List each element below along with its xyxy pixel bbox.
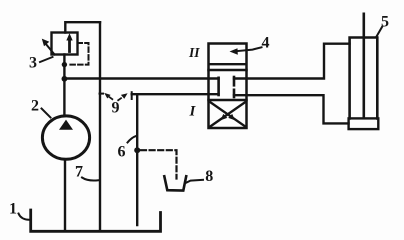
wire relief top loop	[65, 22, 100, 32]
relief valve 3 box	[52, 33, 78, 55]
wire drain line 7	[99, 22, 101, 231]
tank	[31, 210, 161, 231]
cylinder 5 barrel	[350, 38, 378, 119]
valve I cell cross arrows	[211, 102, 246, 126]
label 3	[29, 55, 37, 72]
label 6 leader	[128, 136, 137, 143]
label 8	[205, 168, 213, 185]
svg-text:6: 6	[118, 144, 126, 161]
valve 4 outer box	[209, 44, 247, 129]
flow arrow 9 left	[110, 97, 113, 99]
label 7 leader	[82, 178, 99, 181]
valve middle cell left loop bar	[217, 78, 220, 95]
wire rail B	[132, 93, 219, 95]
wire rail A right to cylinder	[234, 44, 350, 79]
valve middle cell right bar upper	[233, 77, 236, 85]
wire drain dashed to funnel	[141, 150, 177, 178]
cylinder piston	[349, 118, 379, 129]
wire pump suction	[64, 159, 66, 231]
wire rail B right to cylinder	[234, 95, 349, 123]
label 4	[262, 35, 270, 52]
label II	[188, 45, 200, 60]
node junction 6 dot	[134, 147, 140, 153]
svg-text:8: 8	[205, 168, 213, 185]
label 6	[118, 144, 126, 161]
label 5 leader	[377, 27, 383, 37]
label 3 leader	[40, 57, 53, 62]
valve II cell arrow with label 4 leader	[236, 47, 262, 51]
label 7	[75, 164, 83, 181]
valve II cell flow line	[209, 63, 246, 65]
valve middle cell right bar lower	[233, 90, 236, 97]
label 1	[9, 201, 17, 218]
pump 2	[42, 116, 89, 159]
svg-text:I: I	[189, 104, 197, 120]
relief valve internal arrow	[68, 39, 71, 52]
wire rail A	[64, 77, 218, 79]
label 9	[112, 100, 120, 117]
svg-text:2: 2	[31, 98, 39, 115]
label 5	[381, 14, 389, 31]
pump triangle	[59, 120, 73, 130]
svg-text:3: 3	[29, 55, 37, 72]
label 2	[31, 98, 39, 115]
flow arrow 9 right	[118, 98, 121, 100]
funnel 8	[164, 176, 186, 190]
node main junction dot	[62, 76, 68, 82]
relief valve adjust arrow	[46, 44, 55, 55]
node pilot tap dot	[62, 62, 67, 67]
wire pilot dashed	[68, 43, 89, 65]
label 8 leader	[187, 180, 204, 183]
wire return drop	[136, 94, 138, 225]
wire pump discharge	[63, 55, 65, 117]
valve divider bottom	[209, 99, 247, 101]
label 2 leader	[42, 109, 51, 118]
wire rail B end tick	[131, 92, 133, 99]
svg-text:9: 9	[112, 100, 120, 117]
svg-text:II: II	[188, 45, 200, 60]
valve divider top	[209, 69, 247, 71]
label 1 leader	[19, 214, 30, 220]
svg-text:4: 4	[262, 35, 270, 52]
svg-text:1: 1	[9, 201, 17, 218]
cylinder rod	[362, 14, 365, 118]
label I	[189, 104, 197, 120]
